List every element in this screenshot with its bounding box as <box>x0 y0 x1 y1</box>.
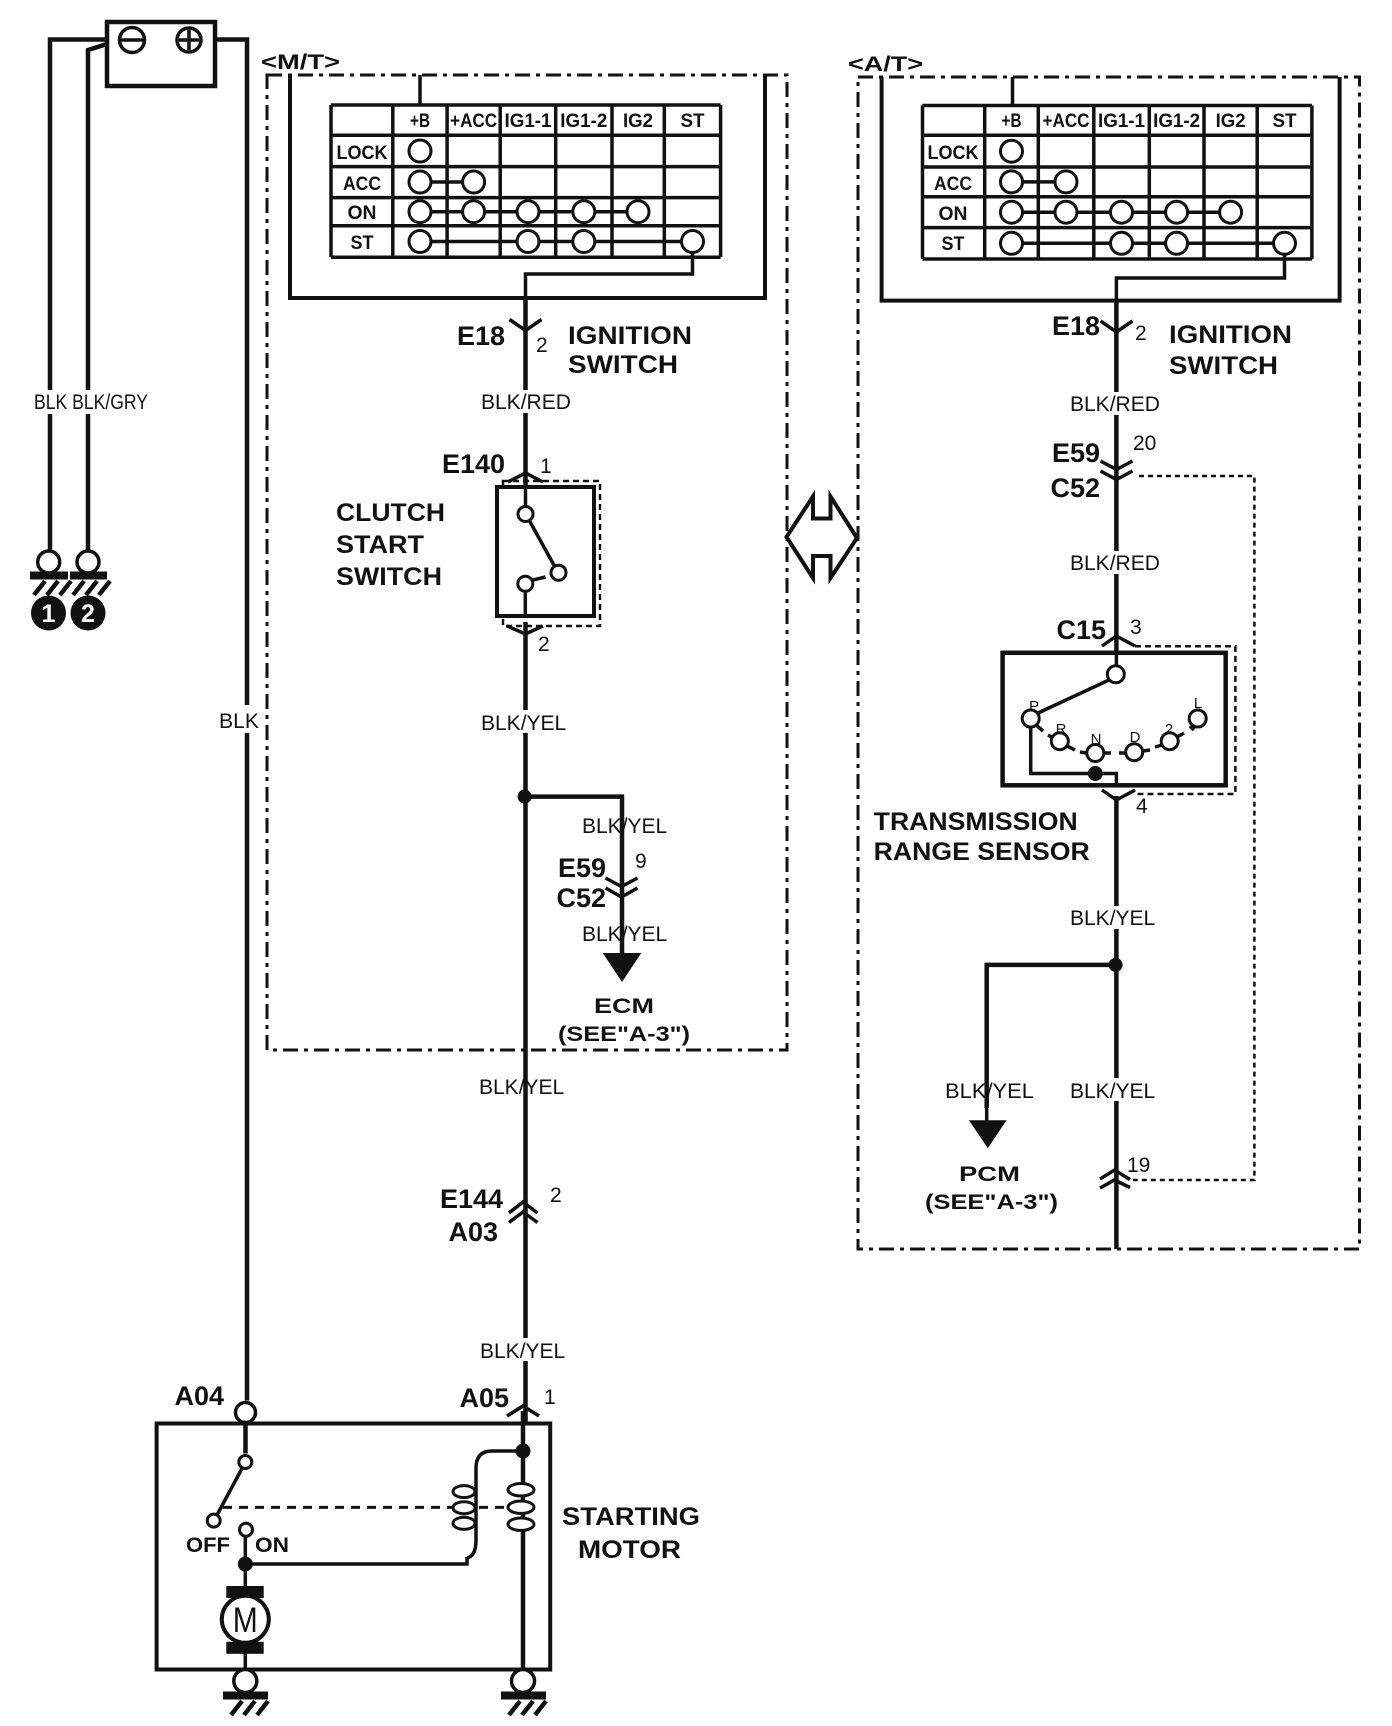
feed stub to table M/T <box>418 75 422 105</box>
svg-text:(SEE"A-3"): (SEE"A-3") <box>558 1023 690 1046</box>
label BLK BLK/GRY <box>32 390 152 414</box>
svg-text:R: R <box>1056 721 1067 738</box>
svg-text:E18: E18 <box>457 321 505 351</box>
svg-text:RANGE SENSOR: RANGE SENSOR <box>874 838 1090 866</box>
svg-text:ST: ST <box>1273 111 1297 132</box>
svg-text:CLUTCH: CLUTCH <box>336 499 445 527</box>
A/T dash-dot border box <box>858 77 1360 1249</box>
wire ST output A/T <box>1116 254 1284 320</box>
ground under motor <box>223 1670 268 1716</box>
transmission range sensor box <box>1003 653 1226 786</box>
svg-text:+B: +B <box>1002 111 1022 132</box>
label BLK/YEL A/T <box>1066 906 1166 930</box>
connector E144 A03 <box>440 1184 562 1247</box>
svg-text:A03: A03 <box>448 1217 498 1247</box>
wire battery positive feed to A04 <box>215 40 247 1401</box>
svg-text:2: 2 <box>536 334 548 357</box>
label BLK/YEL above junction <box>477 710 577 735</box>
contact L <box>1189 710 1206 727</box>
relay junction dot <box>238 1557 253 1572</box>
svg-text:A05: A05 <box>459 1383 509 1413</box>
svg-text:+B: +B <box>410 111 430 132</box>
svg-text:1: 1 <box>544 1386 556 1409</box>
feed stub to table A/T <box>1011 77 1015 106</box>
ground 2 <box>70 551 110 595</box>
label IGNITION SWITCH A/T <box>1169 321 1292 380</box>
svg-text:BLK/RED: BLK/RED <box>1070 552 1160 575</box>
svg-text:BLK/YEL: BLK/YEL <box>582 923 667 946</box>
svg-text:IGNITION: IGNITION <box>568 322 692 350</box>
bidirectional arrow between M/T and A/T <box>787 497 858 579</box>
contact N <box>1087 745 1104 762</box>
svg-text:BLK/RED: BLK/RED <box>1070 393 1160 416</box>
label PCM (SEE A-3) <box>925 1163 1058 1214</box>
dashed mechanical link <box>223 1506 508 1509</box>
svg-text:2: 2 <box>81 600 95 628</box>
connector E18 M/T <box>457 320 548 358</box>
svg-text:4: 4 <box>1136 795 1148 818</box>
svg-text:20: 20 <box>1133 432 1156 455</box>
svg-text:IG1-2: IG1-2 <box>1153 111 1200 132</box>
svg-text:LOCK: LOCK <box>337 143 388 164</box>
wire battery to ground 2 (BLK/GRY) <box>88 44 107 551</box>
table contact circles <box>409 140 704 253</box>
table contact link lines <box>420 180 474 184</box>
svg-text:C15: C15 <box>1056 615 1106 645</box>
svg-text:E59: E59 <box>1052 438 1100 468</box>
svg-text:ACC: ACC <box>934 174 972 195</box>
svg-text:D: D <box>1130 729 1141 746</box>
svg-text:ON: ON <box>939 204 968 225</box>
svg-text:E140: E140 <box>442 449 505 479</box>
svg-text:BLK/YEL: BLK/YEL <box>481 712 566 735</box>
svg-text:IG2: IG2 <box>623 111 653 132</box>
contact R <box>1051 733 1068 750</box>
wire clutch switch to M/T box bottom <box>523 622 528 1050</box>
sensor internals <box>1022 653 1206 786</box>
motor M <box>222 1564 269 1670</box>
dotted connector boundary C52 <box>1133 476 1254 1180</box>
svg-text:PCM: PCM <box>959 1163 1020 1186</box>
svg-text:ECM: ECM <box>594 995 654 1018</box>
svg-text:19: 19 <box>1127 1154 1150 1177</box>
label BLK/RED M/T <box>477 390 577 414</box>
branch wire to ECM <box>525 797 622 953</box>
connector E59 C52 A/T <box>1050 432 1156 503</box>
connector A04 <box>174 1381 255 1423</box>
svg-text:SWITCH: SWITCH <box>1169 352 1278 380</box>
svg-text:SWITCH: SWITCH <box>568 351 678 379</box>
svg-text:BLK/YEL: BLK/YEL <box>1070 907 1155 930</box>
svg-text:BLK/YEL: BLK/YEL <box>945 1080 1034 1103</box>
svg-text:9: 9 <box>635 850 647 873</box>
svg-text:+ACC: +ACC <box>1043 111 1090 132</box>
contact 2 <box>1161 733 1178 750</box>
junction dot M/T <box>518 790 532 804</box>
svg-text:IG2: IG2 <box>1216 111 1246 132</box>
label IGNITION SWITCH M/T <box>568 322 692 379</box>
clutch start switch contacts <box>518 487 566 616</box>
label BLK/YEL main A/T <box>1066 1078 1166 1103</box>
svg-text:BLK BLK/GRY: BLK BLK/GRY <box>34 391 148 414</box>
battery <box>107 22 215 86</box>
wire battery negative to ground 1 (BLK) <box>50 40 107 552</box>
svg-text:SWITCH: SWITCH <box>336 563 442 591</box>
connector A05 <box>459 1383 555 1416</box>
svg-text:N: N <box>1091 731 1102 748</box>
svg-text:ACC: ACC <box>343 174 381 195</box>
label STARTING MOTOR <box>562 1503 700 1564</box>
svg-text:IGNITION: IGNITION <box>1169 321 1292 349</box>
svg-text:OFF: OFF <box>186 1534 230 1557</box>
label BLK/YEL below M/T box <box>475 1074 575 1099</box>
wire pin3 stub into sensor <box>1115 653 1119 666</box>
label BLK/YEL above A05 <box>476 1338 576 1363</box>
svg-text:2: 2 <box>1165 721 1173 738</box>
ignition switch table A/T <box>923 106 1312 260</box>
connector E18 A/T <box>1052 311 1147 345</box>
sensor exit connector pin 4 <box>1102 790 1148 818</box>
wire E18 to E140 M/T <box>523 300 528 487</box>
label BLK on positive feed <box>215 705 265 733</box>
clutch start switch box <box>497 487 594 616</box>
svg-text:MOTOR: MOTOR <box>578 1536 681 1564</box>
connector E140 <box>442 449 552 482</box>
arrow to ECM <box>603 953 642 982</box>
svg-text:2: 2 <box>538 633 550 656</box>
svg-text:A04: A04 <box>174 1381 224 1411</box>
svg-text:BLK/YEL: BLK/YEL <box>1070 1080 1155 1103</box>
transmission range sensor dashed box <box>1135 646 1235 794</box>
common contact <box>1107 666 1124 683</box>
pull-in coil <box>453 1451 523 1558</box>
svg-text:C52: C52 <box>1050 473 1100 503</box>
contact D <box>1126 744 1143 761</box>
svg-text:<M/T>: <M/T> <box>261 51 340 74</box>
ground number 1 <box>31 596 66 631</box>
svg-text:2: 2 <box>550 1184 562 1207</box>
svg-text:ON: ON <box>255 1534 289 1557</box>
wire junction to pull-in coil <box>245 1557 467 1564</box>
position labels <box>1029 695 1202 748</box>
svg-text:BLK: BLK <box>219 710 259 733</box>
svg-text:ST: ST <box>351 233 374 254</box>
svg-text:(SEE"A-3"): (SEE"A-3") <box>925 1191 1058 1214</box>
svg-text:BLK/YEL: BLK/YEL <box>582 815 667 838</box>
svg-text:IG1-1: IG1-1 <box>1098 111 1145 132</box>
wire E18 to C15 A/T <box>1114 302 1119 666</box>
svg-text:1: 1 <box>540 455 552 478</box>
label BLK/RED A/T lower <box>1066 551 1166 575</box>
junction dot A/T <box>1109 958 1123 972</box>
svg-text:M: M <box>233 1601 258 1640</box>
branch wire to PCM <box>987 965 1116 1108</box>
contact P <box>1022 710 1039 727</box>
ignition switch container box M/T <box>290 75 765 298</box>
clutch start switch dashed box <box>503 481 600 626</box>
svg-text:E59: E59 <box>558 853 606 883</box>
label ECM (SEE A-3) <box>558 995 690 1046</box>
svg-text:IG1-1: IG1-1 <box>505 111 552 132</box>
svg-text:C52: C52 <box>556 883 606 913</box>
hold-in coil <box>508 1484 534 1531</box>
wire M/T box to starting motor <box>523 1050 528 1423</box>
svg-text:ST: ST <box>681 111 705 132</box>
label BLK/RED A/T upper <box>1066 392 1166 416</box>
wire ST output M/T <box>526 253 693 319</box>
wire P to N junction <box>1031 727 1117 785</box>
svg-text:1: 1 <box>42 600 56 628</box>
svg-text:E18: E18 <box>1052 311 1100 341</box>
svg-text:E144: E144 <box>440 1184 503 1214</box>
arrow to PCM <box>969 1108 1007 1148</box>
wire sensor to A/T box bottom <box>1114 796 1119 1249</box>
svg-text:TRANSMISSION: TRANSMISSION <box>874 808 1078 836</box>
svg-text:ON: ON <box>348 203 377 224</box>
svg-text:BLK/YEL: BLK/YEL <box>479 1076 564 1099</box>
svg-text:+ACC: +ACC <box>450 111 497 132</box>
connector E59 C52 M/T <box>556 850 646 913</box>
ground 1 <box>30 551 71 595</box>
wire A05 into box and hold-in coil junction dot <box>521 1411 526 1669</box>
connector pin 2 below clutch switch <box>507 626 550 656</box>
svg-text:LOCK: LOCK <box>928 143 979 164</box>
svg-text:P: P <box>1029 698 1039 715</box>
connector C15 <box>1056 615 1141 646</box>
table contact circles A/T <box>1001 140 1296 254</box>
svg-text:ST: ST <box>942 234 965 255</box>
svg-text:BLK/YEL: BLK/YEL <box>480 1340 565 1363</box>
label CLUTCH START SWITCH <box>336 499 445 591</box>
table contact link lines A/T <box>1012 180 1067 184</box>
connector 19 <box>1100 1154 1150 1188</box>
wire A04 into relay <box>243 1424 248 1454</box>
starting motor box <box>157 1424 551 1670</box>
N junction dot <box>1088 766 1103 781</box>
ground under hold-in coil <box>501 1670 546 1716</box>
svg-text:L: L <box>1194 695 1202 712</box>
svg-text:STARTING: STARTING <box>562 1503 700 1531</box>
svg-text:START: START <box>336 531 424 559</box>
svg-text:IG1-2: IG1-2 <box>560 111 607 132</box>
labels OFF ON <box>186 1534 289 1557</box>
svg-text:3: 3 <box>1130 616 1142 639</box>
ground number 2 <box>71 596 106 631</box>
label TRANSMISSION RANGE SENSOR <box>874 808 1090 866</box>
svg-text:BLK/RED: BLK/RED <box>481 391 571 414</box>
ignition switch container box A/T <box>882 77 1340 301</box>
selector blade <box>1038 680 1109 713</box>
M/T dash-dot border box <box>267 75 787 1050</box>
relay contact circles and blade <box>207 1456 252 1565</box>
ignition switch table M/T <box>331 105 721 257</box>
svg-text:2: 2 <box>1135 322 1147 345</box>
svg-text:<A/T>: <A/T> <box>848 53 923 76</box>
